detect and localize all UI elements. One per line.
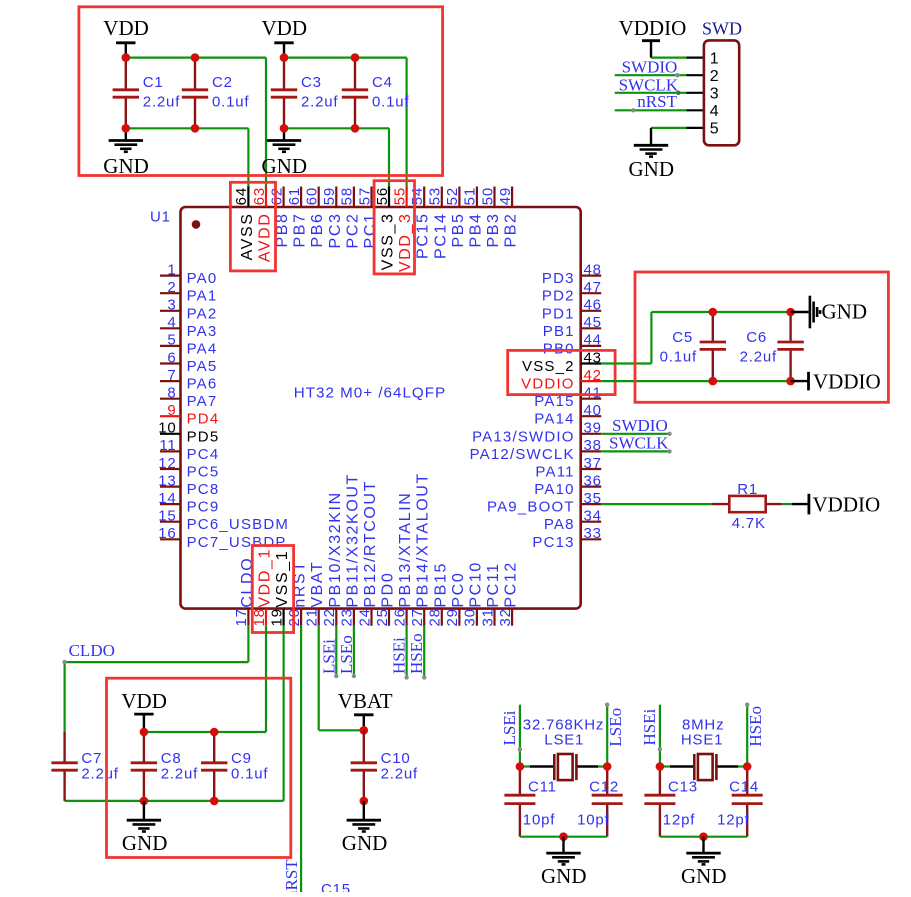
svg-text:LSEo: LSEo bbox=[606, 708, 625, 747]
svg-text:63: 63 bbox=[251, 187, 268, 205]
svg-text:PB6: PB6 bbox=[309, 213, 326, 248]
svg-text:13: 13 bbox=[158, 472, 176, 489]
svg-text:11: 11 bbox=[159, 437, 176, 454]
svg-text:0.1uf: 0.1uf bbox=[372, 94, 409, 111]
svg-text:PC2: PC2 bbox=[344, 213, 361, 249]
svg-text:57: 57 bbox=[356, 187, 373, 205]
svg-text:4.7K: 4.7K bbox=[732, 515, 766, 532]
svg-text:PC6_USBDM: PC6_USBDM bbox=[187, 516, 290, 533]
svg-text:C13: C13 bbox=[668, 778, 698, 795]
svg-text:VDDIO: VDDIO bbox=[619, 16, 687, 40]
svg-text:U1: U1 bbox=[150, 208, 171, 225]
svg-text:10pf: 10pf bbox=[523, 812, 555, 829]
svg-text:nRST: nRST bbox=[637, 92, 677, 111]
svg-text:SWCLK: SWCLK bbox=[609, 433, 669, 452]
svg-text:VBAT: VBAT bbox=[309, 561, 326, 608]
svg-text:0.1uf: 0.1uf bbox=[231, 766, 268, 783]
svg-text:PA11: PA11 bbox=[535, 464, 574, 481]
svg-text:SWDIO: SWDIO bbox=[622, 58, 678, 77]
svg-text:10pf: 10pf bbox=[577, 812, 609, 829]
svg-text:GND: GND bbox=[122, 831, 167, 855]
svg-text:15: 15 bbox=[158, 508, 176, 525]
svg-text:12pf: 12pf bbox=[663, 812, 695, 829]
svg-text:3: 3 bbox=[710, 86, 719, 103]
svg-text:VDDIO: VDDIO bbox=[521, 376, 575, 393]
svg-text:43: 43 bbox=[584, 349, 602, 366]
svg-text:C4: C4 bbox=[372, 74, 393, 91]
svg-text:VBAT: VBAT bbox=[338, 689, 393, 713]
svg-text:SWD: SWD bbox=[702, 19, 742, 39]
svg-text:PD4: PD4 bbox=[187, 411, 220, 428]
svg-text:60: 60 bbox=[304, 187, 321, 205]
svg-text:46: 46 bbox=[584, 297, 602, 314]
svg-text:27: 27 bbox=[409, 608, 426, 626]
svg-text:25: 25 bbox=[374, 608, 391, 626]
svg-text:PD3: PD3 bbox=[542, 270, 575, 287]
svg-text:PB15: PB15 bbox=[432, 562, 449, 608]
svg-text:41: 41 bbox=[584, 385, 602, 402]
svg-text:C8: C8 bbox=[161, 750, 182, 767]
svg-text:30: 30 bbox=[462, 608, 479, 626]
svg-text:17: 17 bbox=[233, 608, 250, 626]
svg-text:PC1: PC1 bbox=[362, 213, 379, 249]
svg-text:54: 54 bbox=[409, 187, 426, 205]
svg-text:PB12/RTCOUT: PB12/RTCOUT bbox=[362, 480, 379, 608]
svg-text:PD1: PD1 bbox=[542, 305, 575, 322]
svg-text:PA1: PA1 bbox=[187, 288, 218, 305]
svg-text:22: 22 bbox=[321, 608, 338, 626]
svg-text:23: 23 bbox=[339, 608, 356, 626]
svg-text:VDDIO: VDDIO bbox=[813, 370, 881, 394]
svg-text:1: 1 bbox=[167, 261, 176, 278]
svg-text:C15: C15 bbox=[321, 881, 351, 892]
svg-text:2.2uf: 2.2uf bbox=[740, 349, 777, 366]
svg-text:35: 35 bbox=[584, 490, 602, 507]
svg-text:PA14: PA14 bbox=[534, 411, 574, 428]
svg-text:24: 24 bbox=[356, 608, 373, 626]
svg-text:38: 38 bbox=[584, 437, 602, 454]
svg-text:PA0: PA0 bbox=[187, 270, 218, 287]
svg-text:C9: C9 bbox=[231, 750, 252, 767]
svg-text:29: 29 bbox=[444, 608, 461, 626]
svg-text:GND: GND bbox=[342, 831, 388, 855]
svg-text:PC8: PC8 bbox=[187, 481, 220, 498]
svg-text:PB4: PB4 bbox=[467, 213, 484, 248]
svg-text:LSEo: LSEo bbox=[337, 635, 356, 674]
svg-text:34: 34 bbox=[584, 508, 602, 525]
svg-text:55: 55 bbox=[391, 187, 408, 205]
svg-text:61: 61 bbox=[286, 187, 303, 205]
svg-text:8: 8 bbox=[167, 385, 176, 402]
svg-text:53: 53 bbox=[427, 187, 444, 205]
svg-text:16: 16 bbox=[158, 525, 176, 542]
svg-text:52: 52 bbox=[444, 187, 461, 205]
svg-text:0.1uf: 0.1uf bbox=[660, 349, 697, 366]
svg-text:5: 5 bbox=[167, 332, 176, 349]
svg-text:PB10/X32KIN: PB10/X32KIN bbox=[327, 491, 344, 607]
svg-text:HSEi: HSEi bbox=[390, 637, 409, 674]
svg-text:C7: C7 bbox=[81, 750, 102, 767]
svg-text:21: 21 bbox=[304, 608, 321, 626]
svg-text:AVDD: AVDD bbox=[257, 213, 274, 263]
svg-text:2.2uf: 2.2uf bbox=[161, 766, 198, 783]
svg-text:PA10: PA10 bbox=[534, 481, 574, 498]
svg-text:HT32 M0+ /64LQFP: HT32 M0+ /64LQFP bbox=[294, 385, 446, 402]
svg-text:PA7: PA7 bbox=[187, 393, 218, 410]
svg-text:49: 49 bbox=[497, 187, 514, 205]
svg-text:26: 26 bbox=[391, 608, 408, 626]
svg-text:PA5: PA5 bbox=[187, 358, 218, 375]
svg-text:VDD_1: VDD_1 bbox=[257, 548, 274, 608]
svg-text:PB13/XTALIN: PB13/XTALIN bbox=[397, 492, 414, 608]
svg-text:C10: C10 bbox=[381, 750, 411, 767]
svg-text:4: 4 bbox=[167, 314, 176, 331]
svg-text:59: 59 bbox=[321, 187, 338, 205]
svg-text:5: 5 bbox=[710, 121, 719, 138]
svg-text:42: 42 bbox=[584, 367, 602, 384]
svg-text:PA3: PA3 bbox=[187, 323, 218, 340]
svg-text:2: 2 bbox=[710, 68, 719, 85]
svg-text:VDD: VDD bbox=[121, 689, 166, 713]
svg-text:14: 14 bbox=[158, 490, 176, 507]
svg-text:CLDO: CLDO bbox=[69, 641, 115, 660]
svg-text:56: 56 bbox=[374, 187, 391, 205]
svg-text:C2: C2 bbox=[212, 74, 233, 91]
svg-text:2: 2 bbox=[167, 279, 176, 296]
svg-text:PB11/X32KOUT: PB11/X32KOUT bbox=[344, 473, 361, 608]
svg-text:VDD: VDD bbox=[103, 16, 149, 40]
svg-text:28: 28 bbox=[427, 608, 444, 626]
svg-text:HSEi: HSEi bbox=[640, 708, 659, 745]
svg-text:C14: C14 bbox=[729, 778, 759, 795]
svg-text:48: 48 bbox=[584, 261, 602, 278]
svg-text:PD5: PD5 bbox=[187, 428, 220, 445]
svg-text:nRST: nRST bbox=[282, 859, 301, 892]
svg-text:PD2: PD2 bbox=[542, 288, 575, 305]
svg-text:3: 3 bbox=[167, 297, 176, 314]
svg-text:LSE1: LSE1 bbox=[544, 731, 584, 748]
svg-text:PB0: PB0 bbox=[543, 340, 575, 357]
svg-text:50: 50 bbox=[479, 187, 496, 205]
svg-text:VDDIO: VDDIO bbox=[813, 493, 881, 517]
svg-text:PC9: PC9 bbox=[187, 499, 220, 516]
svg-text:VDD_3: VDD_3 bbox=[397, 213, 414, 273]
svg-text:0.1uf: 0.1uf bbox=[212, 94, 249, 111]
svg-text:39: 39 bbox=[584, 420, 602, 437]
svg-text:PB2: PB2 bbox=[503, 213, 520, 248]
svg-text:PA8: PA8 bbox=[544, 516, 575, 533]
svg-text:PC14: PC14 bbox=[432, 213, 449, 259]
svg-text:31: 31 bbox=[479, 608, 496, 626]
svg-text:PC4: PC4 bbox=[187, 446, 220, 463]
svg-text:PC0: PC0 bbox=[450, 572, 467, 608]
svg-text:12: 12 bbox=[158, 455, 176, 472]
svg-text:PA4: PA4 bbox=[187, 340, 218, 357]
svg-text:C1: C1 bbox=[143, 74, 164, 91]
svg-text:PB3: PB3 bbox=[485, 213, 502, 248]
svg-text:64: 64 bbox=[233, 187, 250, 205]
svg-text:PA6: PA6 bbox=[187, 376, 218, 393]
svg-text:2.2uf: 2.2uf bbox=[81, 766, 118, 783]
svg-text:C11: C11 bbox=[528, 778, 557, 795]
svg-text:PA13/SWDIO: PA13/SWDIO bbox=[472, 428, 575, 445]
svg-text:SWDIO: SWDIO bbox=[612, 416, 668, 435]
svg-text:37: 37 bbox=[584, 455, 602, 472]
svg-text:HSEo: HSEo bbox=[407, 633, 426, 674]
svg-text:6: 6 bbox=[167, 349, 176, 366]
svg-text:PB1: PB1 bbox=[543, 323, 575, 340]
svg-text:LSEi: LSEi bbox=[500, 710, 519, 745]
svg-text:2.2uf: 2.2uf bbox=[143, 94, 180, 111]
svg-text:VSS_2: VSS_2 bbox=[522, 358, 575, 375]
svg-text:1: 1 bbox=[710, 50, 719, 67]
svg-text:GND: GND bbox=[541, 864, 587, 888]
svg-text:PC12: PC12 bbox=[503, 561, 520, 607]
svg-text:PC11: PC11 bbox=[485, 562, 502, 607]
svg-text:58: 58 bbox=[339, 187, 356, 205]
svg-text:PA9_BOOT: PA9_BOOT bbox=[487, 499, 575, 516]
svg-text:36: 36 bbox=[584, 472, 602, 489]
svg-text:C12: C12 bbox=[589, 778, 619, 795]
svg-text:12pf: 12pf bbox=[717, 812, 749, 829]
svg-text:VDD: VDD bbox=[262, 16, 308, 40]
svg-text:GND: GND bbox=[822, 300, 868, 324]
svg-text:PA12/SWCLK: PA12/SWCLK bbox=[470, 446, 575, 463]
svg-text:PB14/XTALOUT: PB14/XTALOUT bbox=[415, 472, 432, 607]
svg-text:PC3: PC3 bbox=[327, 213, 344, 249]
svg-text:C3: C3 bbox=[301, 74, 322, 91]
svg-text:7: 7 bbox=[167, 367, 176, 384]
svg-text:C5: C5 bbox=[672, 329, 693, 346]
svg-text:PB7: PB7 bbox=[292, 213, 309, 248]
svg-text:AVSS: AVSS bbox=[239, 213, 256, 261]
svg-text:40: 40 bbox=[584, 402, 602, 419]
svg-text:44: 44 bbox=[584, 332, 602, 349]
svg-text:C6: C6 bbox=[746, 329, 767, 346]
svg-text:2.2uf: 2.2uf bbox=[301, 94, 338, 111]
svg-text:R1: R1 bbox=[737, 481, 758, 498]
svg-text:PC5: PC5 bbox=[187, 464, 220, 481]
svg-text:4: 4 bbox=[710, 103, 719, 120]
svg-text:PD0: PD0 bbox=[380, 572, 397, 608]
svg-text:PC15: PC15 bbox=[415, 213, 432, 259]
svg-text:9: 9 bbox=[167, 402, 176, 419]
svg-text:PB5: PB5 bbox=[450, 213, 467, 248]
svg-text:VSS_1: VSS_1 bbox=[274, 550, 291, 608]
svg-text:PC13: PC13 bbox=[532, 534, 574, 551]
svg-text:HSEo: HSEo bbox=[746, 706, 765, 747]
svg-text:47: 47 bbox=[584, 279, 602, 296]
svg-text:LSEi: LSEi bbox=[319, 639, 338, 674]
svg-text:10: 10 bbox=[158, 420, 176, 437]
svg-text:33: 33 bbox=[584, 525, 602, 542]
svg-text:32: 32 bbox=[497, 608, 514, 626]
svg-text:2.2uf: 2.2uf bbox=[381, 766, 418, 783]
svg-text:45: 45 bbox=[584, 314, 602, 331]
svg-text:HSE1: HSE1 bbox=[681, 731, 723, 748]
svg-text:19: 19 bbox=[268, 608, 285, 626]
svg-text:GND: GND bbox=[629, 157, 675, 181]
svg-text:51: 51 bbox=[462, 187, 479, 205]
svg-text:PC10: PC10 bbox=[467, 561, 484, 607]
svg-text:PA2: PA2 bbox=[187, 305, 218, 322]
svg-text:GND: GND bbox=[681, 864, 727, 888]
svg-text:VSS_3: VSS_3 bbox=[380, 213, 397, 271]
